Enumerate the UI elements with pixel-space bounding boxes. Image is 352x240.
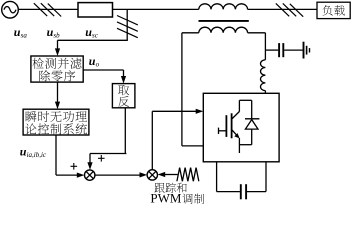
series measurement box <box>78 3 113 17</box>
label 跟踪和 <box>154 183 186 193</box>
arrow into inverter box <box>121 76 126 84</box>
summing junction S2 <box>147 170 157 180</box>
diode D1 anode lead <box>251 129 253 145</box>
IGBT Q1 collector lead <box>238 100 240 111</box>
svg-text:ia,ib,ic: ia,ib,ic <box>27 151 47 159</box>
arrow into summer 1 left <box>77 173 85 178</box>
arrow into detection box <box>55 48 60 56</box>
svg-text:o: o <box>96 61 100 69</box>
wire inductor to converter box <box>264 91 266 94</box>
sawtooth carrier symbol <box>177 168 199 182</box>
three-phase marks on load line <box>276 3 289 16</box>
plus sign left of summer 1 <box>71 165 78 167</box>
wire carrier to summer 2 <box>163 174 178 176</box>
dc link capacitor C2 <box>240 184 242 199</box>
wire capacitor to ground <box>284 49 303 51</box>
arrow into summer 2 left <box>140 172 148 177</box>
load label 负载 <box>323 5 345 16</box>
three-phase marks on source line <box>34 3 47 16</box>
wire dc capacitor right to box <box>247 191 266 193</box>
IGBT Q1 collector diagonal <box>232 112 240 119</box>
transformer T1 core bar <box>199 20 249 22</box>
wire inverter box to summer 1 <box>124 108 126 154</box>
arrow into converter box <box>196 109 204 114</box>
wire secondary left to converter <box>182 32 199 34</box>
wire series box to transformer <box>113 8 199 10</box>
detection box 检测并滤除零序 <box>31 56 83 82</box>
svg-text:sa: sa <box>21 31 28 39</box>
svg-text:PWM: PWM <box>150 191 182 205</box>
arrow into control box <box>55 102 60 110</box>
wire box to dc capacitor left <box>216 162 218 192</box>
wire summer 2 to converter <box>151 111 153 169</box>
IGBT Q1 gate lead <box>219 130 226 132</box>
summing junction S1 <box>85 170 95 180</box>
wire detection to inverter box <box>83 69 123 71</box>
IGBT Q1 gate bar <box>225 115 227 137</box>
plus sign above summer 1 <box>98 157 105 159</box>
wire to filter capacitor <box>265 49 278 51</box>
wire secondary right down <box>248 32 266 34</box>
wire tap to detection box <box>58 39 128 41</box>
control box 瞬时无功理论控制系统 <box>23 109 89 135</box>
arrow into summer 2 right <box>158 172 166 177</box>
wire control box to summer 1 <box>55 135 57 175</box>
wire tap from bus down <box>126 9 128 40</box>
wire detection to control box <box>57 82 59 105</box>
ground <box>303 42 305 59</box>
IGBT Q1 bottom rail <box>239 144 251 146</box>
diode D1 cathode lead <box>251 100 253 119</box>
IGBT Q1 top rail <box>239 99 251 101</box>
arrow into summer 1 top <box>87 162 92 170</box>
IGBT Q1 emitter lead <box>238 138 240 153</box>
diode D1 cathode bar <box>245 118 259 120</box>
transformer T1 primary winding <box>199 4 248 10</box>
three-phase marks on tap wire <box>117 16 138 25</box>
diode D1 triangle <box>245 120 258 130</box>
converter box <box>203 93 279 162</box>
wire transformer to load <box>248 8 317 10</box>
filter inductor L1 <box>261 60 266 91</box>
transformer T1 secondary winding <box>199 27 248 33</box>
filter capacitor C1 <box>278 43 280 57</box>
load box <box>317 2 350 18</box>
AC source G1 <box>2 1 19 18</box>
wire source to series box <box>18 8 78 10</box>
wire summer 1 to summer 2 <box>95 174 142 176</box>
svg-text:sc: sc <box>92 31 99 39</box>
svg-text:sb: sb <box>53 31 60 39</box>
IGBT Q1 emitter arrow <box>234 133 241 140</box>
inverter box 取反 <box>112 84 134 108</box>
IGBT Q1 collector bar <box>231 113 233 138</box>
IGBT Q1 emitter diagonal <box>232 130 239 138</box>
